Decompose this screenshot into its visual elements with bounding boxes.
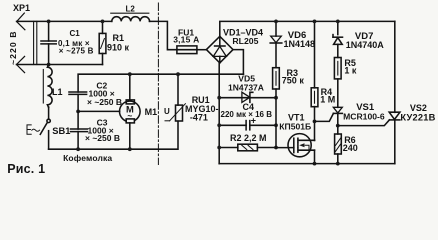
wire VD7-R5-VS1-R6 chain vertical [337, 21, 339, 163]
svg-text:+: + [251, 116, 256, 126]
wire bridge right corner wrap to motor wire [233, 50, 243, 75]
connector XP1 pin 2 [17, 56, 25, 72]
svg-text:750 к: 750 к [282, 75, 305, 85]
svg-text:~220 В: ~220 В [8, 30, 18, 65]
zener diode VD7 [333, 35, 343, 45]
zener diode VD5 [219, 92, 276, 102]
node RU1 top [176, 72, 180, 76]
svg-text:SB1: SB1 [52, 126, 70, 136]
wire VD6-R3 chain vertical [275, 21, 277, 147]
svg-text:240: 240 [343, 143, 358, 153]
svg-text:Рис. 1: Рис. 1 [7, 162, 45, 176]
svg-text:~: ~ [127, 111, 132, 121]
node C2/C3 midpoint [76, 110, 80, 114]
wire L2 to corner and down to FU1 [150, 21, 177, 49]
switch SB1 [40, 119, 50, 149]
svg-text:1N4737A: 1N4737A [228, 83, 264, 93]
boundary dash-dot line [157, 3, 159, 165]
wire top from XP1 to L2 [17, 20, 112, 22]
resistor R6 [335, 134, 342, 154]
bottom rail [219, 163, 395, 165]
node VT1 source on bottom rail [313, 162, 317, 166]
svg-text:R2 2,2 М: R2 2,2 М [230, 133, 267, 143]
inductor L1 [43, 65, 52, 119]
svg-text:× ~250 В: × ~250 В [87, 97, 122, 107]
cord double line [34, 21, 37, 64]
svg-text:MCR100-6: MCR100-6 [343, 112, 385, 122]
svg-text:R1: R1 [113, 33, 125, 43]
resistor R3 [273, 68, 280, 89]
svg-text:L2: L2 [126, 5, 136, 14]
node motor bottom [128, 147, 132, 151]
node C4 right [274, 123, 278, 127]
node VD5 left [217, 96, 221, 100]
connector XP1 pin 1 [17, 13, 25, 30]
svg-text:× ~275 В: × ~275 В [59, 47, 94, 56]
svg-text:910 к: 910 к [107, 42, 130, 52]
fuse FU1 [177, 46, 207, 54]
thyristor VS1 [333, 107, 342, 113]
motor M1 [120, 74, 141, 149]
node VD5 right [274, 96, 278, 100]
capacitor C3 [71, 111, 88, 149]
node R2 left [217, 146, 221, 150]
node R1 top [101, 20, 105, 24]
wire motor line (C2 corner to wrap) [78, 74, 243, 92]
transistor VT1 [276, 134, 315, 164]
node C4 left [217, 123, 221, 127]
node VD7 top [336, 20, 340, 24]
node motor top [128, 72, 132, 76]
right rail [394, 21, 396, 163]
resistor R5 [334, 58, 341, 79]
wire bridge bottom corner down through crossings [218, 63, 220, 164]
svg-text:× ~250 В: × ~250 В [85, 133, 120, 143]
svg-text:-471: -471 [190, 113, 208, 123]
capacitor C2 [69, 92, 87, 111]
node R2 right / VT1 gate [274, 146, 278, 150]
svg-text:1 к: 1 к [344, 66, 357, 76]
svg-text:L1: L1 [52, 87, 63, 97]
svg-text:КУ221В: КУ221В [400, 112, 435, 122]
svg-text:КП501Б: КП501Б [279, 121, 311, 131]
resistor R2 [219, 144, 276, 151]
wire VS1 gate [315, 113, 334, 121]
node C1 bottom / L1 top [47, 63, 51, 67]
resistor R1 [99, 21, 106, 64]
wire bottom-left from XP1 pin2 to R1 bottom [17, 64, 103, 66]
node R4 top [313, 20, 317, 24]
svg-text:U: U [164, 107, 170, 116]
varistor RU1 [165, 74, 185, 121]
thyristor VS2 [389, 112, 400, 120]
node C1 top [47, 20, 51, 24]
resistor R4 [311, 88, 318, 107]
svg-text:M1: M1 [145, 107, 158, 117]
svg-text:RL205: RL205 [232, 36, 258, 46]
SB1 actuator symbol [27, 125, 40, 134]
capacitor C1 [41, 21, 56, 64]
node VS1 cathode / R6 top [336, 124, 340, 128]
node R6 bottom [336, 162, 340, 166]
capacitor C4 [219, 121, 276, 130]
wire R4 chain vertical [314, 21, 316, 140]
svg-text:1N4740А: 1N4740А [346, 40, 385, 50]
svg-text:ХР1: ХР1 [13, 3, 30, 13]
diode VD6 [270, 36, 282, 43]
node VT1 drain / VS1 gate [313, 120, 317, 124]
svg-text:3,15 А: 3,15 А [173, 35, 199, 45]
node C3 bottom [76, 147, 80, 151]
svg-text:1 М: 1 М [320, 95, 335, 105]
wire grinder bottom (SB1 to RU1) [49, 121, 178, 149]
wire bridge top corner to top rail [220, 21, 395, 36]
svg-text:C1: C1 [70, 29, 81, 38]
wire midpoint to motor frame [78, 110, 120, 112]
svg-text:Кофемолка: Кофемолка [63, 153, 112, 163]
wire VS2 gate [338, 120, 390, 126]
node VD6 top [274, 20, 278, 24]
svg-text:1N4148: 1N4148 [284, 39, 316, 49]
inductor L2 [111, 13, 150, 21]
bridge rectifier VD1-VD4 [206, 36, 233, 63]
svg-text:220 мк × 16 В: 220 мк × 16 В [221, 110, 273, 119]
